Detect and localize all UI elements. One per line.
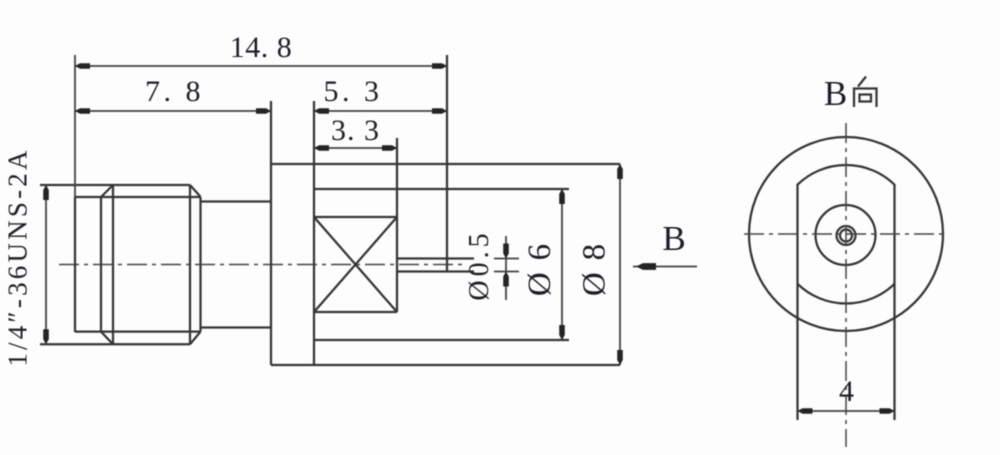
svg-text:Ø0.5: Ø0.5 xyxy=(464,229,495,300)
B view insulator circle xyxy=(816,205,876,265)
thread boundary vertical x101 xyxy=(100,197,102,332)
socket pin top line xyxy=(398,257,474,259)
B view vertical centerline xyxy=(845,123,847,447)
B view title hanzi xiang inner box xyxy=(860,95,872,102)
flange left edge and extension xyxy=(270,101,272,365)
dim 3.3 left arrow xyxy=(314,145,329,151)
svg-text:Ø8: Ø8 xyxy=(577,232,613,296)
B view socket inner circle xyxy=(840,230,852,242)
flange right edge and extension xyxy=(313,101,315,365)
svg-text:14. 8: 14. 8 xyxy=(230,31,293,64)
dim 14.8 left arrow xyxy=(75,63,90,69)
dim 4 right arrow xyxy=(880,408,895,414)
body right face and extension xyxy=(446,55,448,272)
thread boundary vertical x200 xyxy=(199,197,201,332)
dia6 top arrow xyxy=(559,189,565,204)
insulator diagonal 2 xyxy=(314,217,397,312)
B view socket outer circle xyxy=(837,226,856,245)
dia0.5 extension bottom xyxy=(494,271,519,273)
dia0.5 dim line xyxy=(505,236,507,300)
thread dim top arrow xyxy=(43,185,49,200)
dia8 top arrow xyxy=(617,164,623,179)
view B arrowhead xyxy=(636,263,656,270)
B view outer circle dia8 xyxy=(749,137,943,331)
dim 4 line xyxy=(798,410,895,412)
dia0.5 lower arrow xyxy=(503,272,509,287)
thread crest bottom line with extension xyxy=(40,343,190,345)
thread dim bottom arrow xyxy=(43,329,49,344)
chamfer top-right xyxy=(190,185,201,197)
dim 5.3 right arrow xyxy=(432,108,447,114)
thread root top line xyxy=(75,196,201,198)
dim 3.3 right arrow xyxy=(382,145,397,151)
B view flat body top arc xyxy=(798,165,895,185)
dim 5.3 line xyxy=(314,110,447,112)
insulator square top xyxy=(314,216,397,218)
dim 14.8 right arrow xyxy=(432,63,447,69)
dim 14.8 line xyxy=(75,65,447,67)
svg-text:3. 3: 3. 3 xyxy=(331,114,380,147)
svg-text:7. 8: 7. 8 xyxy=(145,75,204,108)
body dia6 bottom and extension xyxy=(314,339,569,341)
chamfer bottom-left xyxy=(101,332,113,345)
B view horizontal centerline xyxy=(744,233,948,235)
thread barrel left face xyxy=(74,197,76,332)
dim 7.8 right arrow xyxy=(256,108,271,114)
socket pin bottom line xyxy=(398,270,474,272)
body dia6 top and extension xyxy=(314,188,569,190)
dim 7.8 line xyxy=(75,110,271,112)
B view flat body bottom arc xyxy=(798,284,895,304)
chamfer bottom-right xyxy=(190,332,201,345)
flange top and dia8 extension xyxy=(271,163,620,165)
mid barrel top xyxy=(201,200,272,202)
dim 5.3 left arrow xyxy=(314,108,329,114)
B view title hanzi xiang stroke slash xyxy=(858,77,866,87)
thread root bottom line xyxy=(75,330,201,332)
extension line left x75 xyxy=(74,55,76,197)
svg-text:B: B xyxy=(824,74,847,113)
dia8 dim line xyxy=(619,164,621,365)
view B arrow line xyxy=(633,266,697,268)
dia0.5 extension top xyxy=(494,258,519,260)
thread dim line vertical xyxy=(45,185,47,344)
centerline main side view xyxy=(59,264,464,266)
svg-text:B: B xyxy=(662,219,685,258)
dim 7.8 left arrow xyxy=(75,108,90,114)
insulator square bottom xyxy=(314,311,397,313)
thread boundary vertical x113 xyxy=(112,185,114,344)
B view title hanzi xiang outer box xyxy=(854,89,877,108)
chamfer top-left xyxy=(101,185,113,197)
insulator diagonal 1 xyxy=(314,217,397,312)
mid barrel bottom xyxy=(201,326,272,328)
dim 4 left arrow xyxy=(798,408,813,414)
svg-text:Ø6: Ø6 xyxy=(522,232,558,296)
svg-text:5. 3: 5. 3 xyxy=(324,75,383,108)
dim 3.3 line xyxy=(314,147,397,149)
flange bottom and dia8 extension xyxy=(271,364,620,366)
thread boundary vertical x190 xyxy=(189,185,191,344)
dia8 bottom arrow xyxy=(617,350,623,365)
thread crest top line with extension xyxy=(40,184,190,186)
svg-text:4: 4 xyxy=(839,375,854,408)
svg-text:1/4″-36UNS-2A: 1/4″-36UNS-2A xyxy=(3,147,33,366)
dia6 dim line xyxy=(561,189,563,340)
B view right flat vertical xyxy=(893,184,895,420)
insulator square right edge and extension xyxy=(396,138,398,312)
dia0.5 upper arrow xyxy=(503,244,509,259)
dia6 bottom arrow xyxy=(559,325,565,340)
B view left flat vertical xyxy=(796,184,798,420)
